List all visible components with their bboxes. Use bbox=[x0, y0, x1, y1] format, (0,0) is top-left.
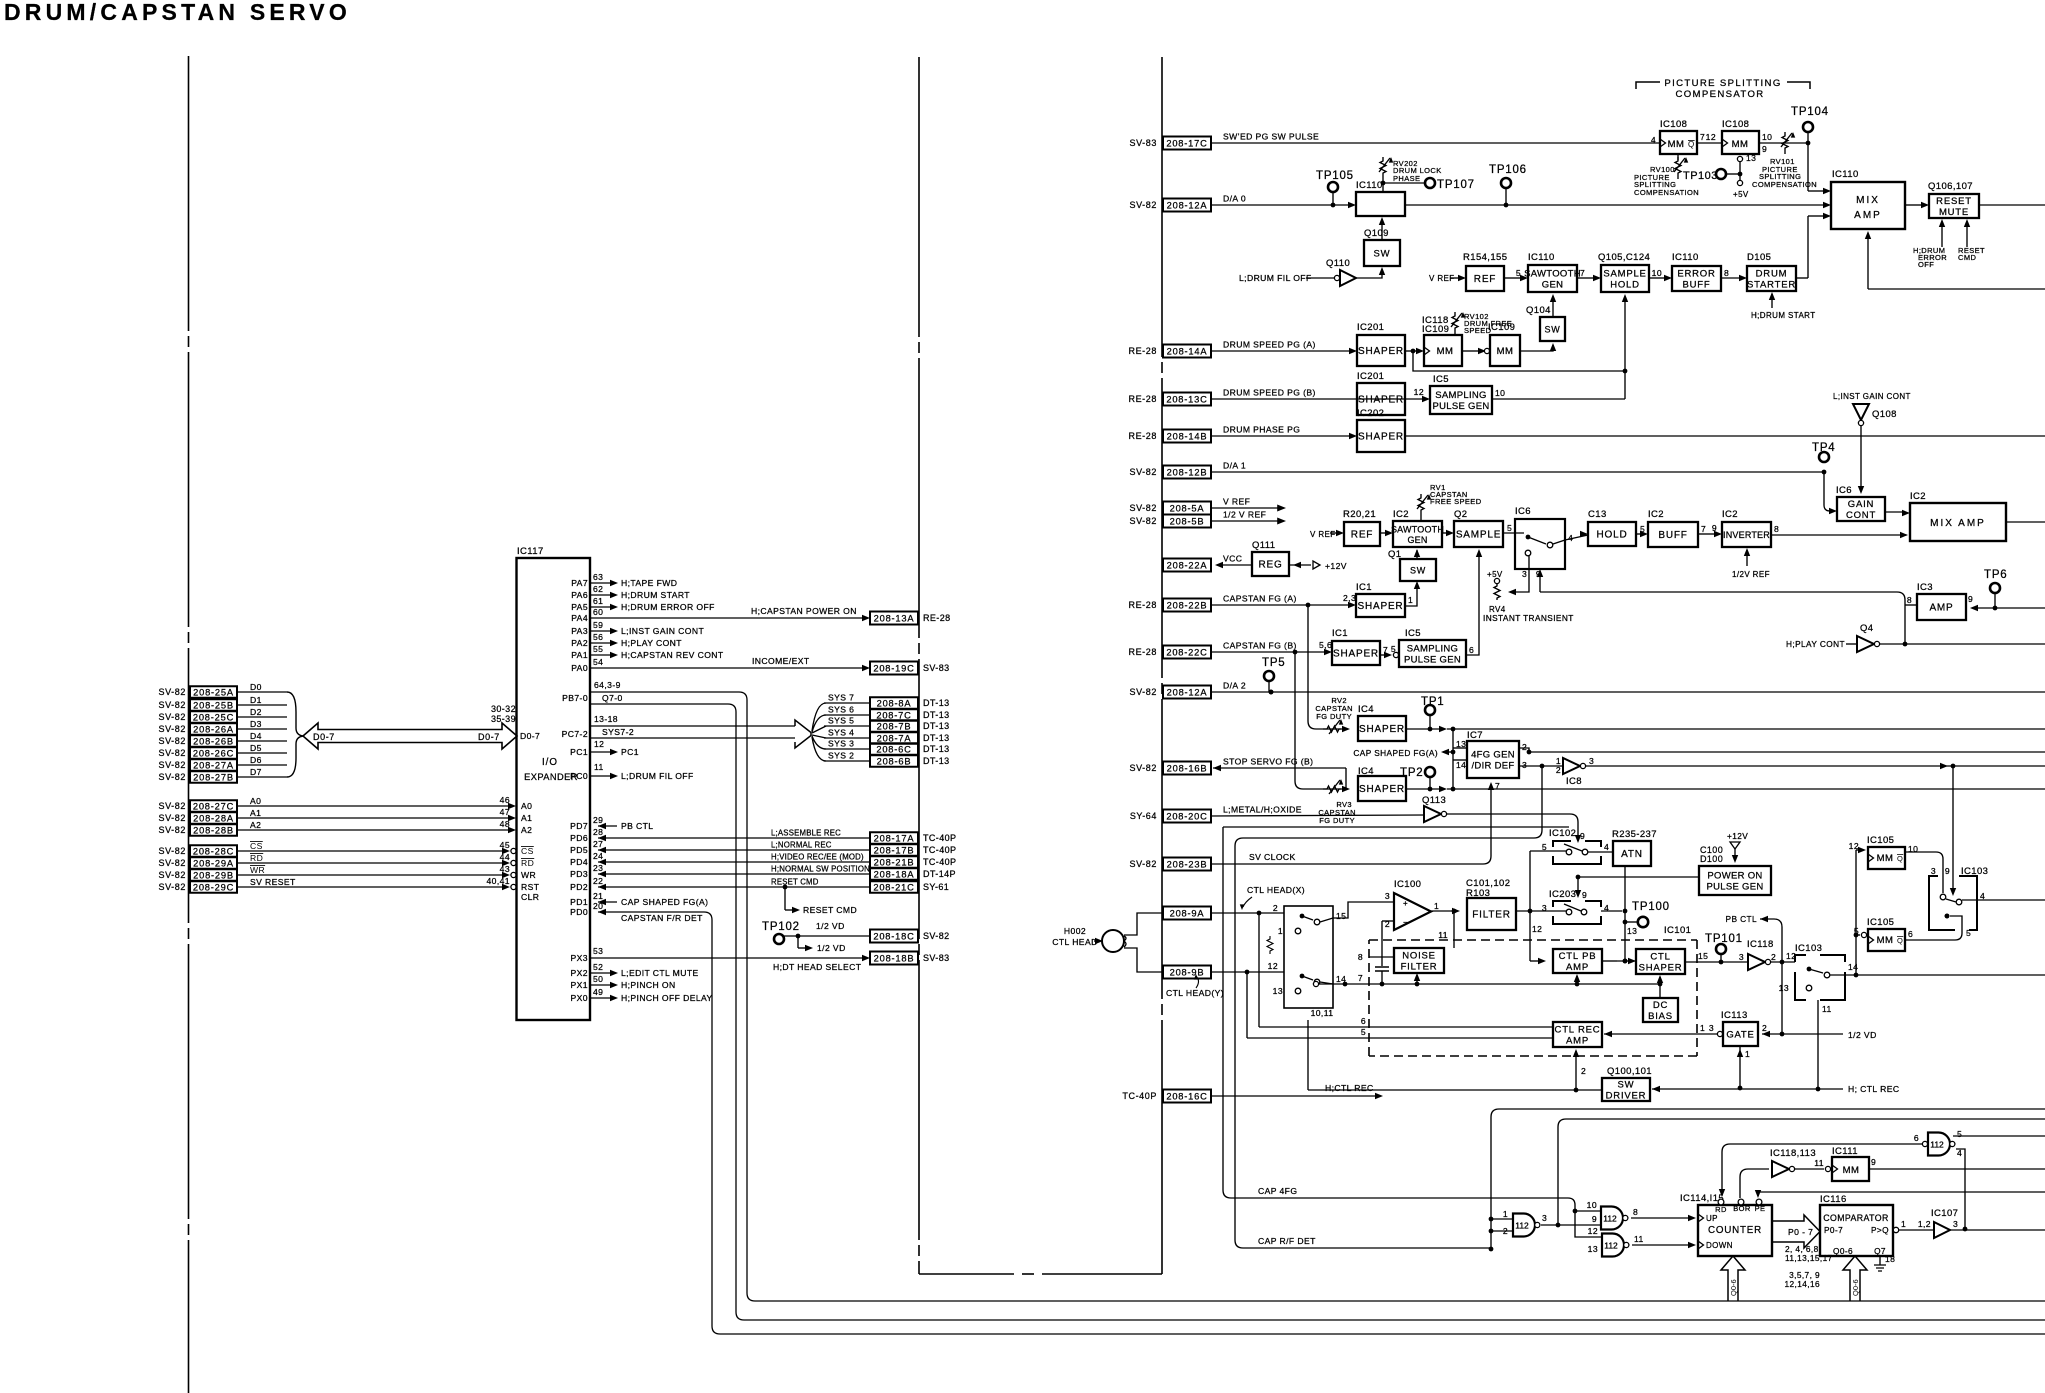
svg-text:IC118,113: IC118,113 bbox=[1770, 1148, 1816, 1159]
svg-text:SV-82: SV-82 bbox=[158, 846, 186, 856]
svg-text:H;DRUM ERROR OFF: H;DRUM ERROR OFF bbox=[621, 602, 715, 612]
svg-text:SV-82: SV-82 bbox=[923, 931, 950, 941]
svg-text:10: 10 bbox=[1652, 268, 1662, 278]
svg-text:208-23B: 208-23B bbox=[1167, 859, 1208, 869]
svg-text:12: 12 bbox=[1706, 132, 1716, 142]
svg-text:9: 9 bbox=[1580, 831, 1585, 841]
svg-text:RD: RD bbox=[521, 858, 534, 868]
svg-text:TP5: TP5 bbox=[1262, 657, 1286, 669]
svg-text:D/A 2: D/A 2 bbox=[1223, 681, 1246, 691]
svg-text:Q: Q bbox=[1897, 936, 1903, 945]
svg-text:SAMPLING: SAMPLING bbox=[1435, 390, 1487, 401]
svg-text:IC108: IC108 bbox=[1660, 119, 1687, 130]
svg-text:INVERTER: INVERTER bbox=[1723, 530, 1770, 540]
svg-text:SYS 3: SYS 3 bbox=[828, 739, 854, 749]
svg-text:BOR: BOR bbox=[1733, 1204, 1751, 1213]
svg-text:SYS 2: SYS 2 bbox=[828, 751, 854, 761]
svg-text:RE-28: RE-28 bbox=[1128, 600, 1157, 610]
svg-text:SYS 5: SYS 5 bbox=[828, 716, 854, 726]
svg-text:208-14A: 208-14A bbox=[1167, 346, 1208, 356]
svg-text:SV-82: SV-82 bbox=[1129, 687, 1157, 697]
svg-text:13: 13 bbox=[1779, 983, 1789, 993]
svg-text:CTL HEAD(X): CTL HEAD(X) bbox=[1247, 885, 1305, 895]
svg-text:208-25A: 208-25A bbox=[193, 687, 234, 697]
svg-text:24: 24 bbox=[593, 851, 603, 861]
svg-text:Q111: Q111 bbox=[1252, 540, 1275, 551]
svg-text:112: 112 bbox=[1930, 1140, 1944, 1150]
svg-text:4FG GEN: 4FG GEN bbox=[1471, 750, 1515, 761]
svg-text:H;VIDEO REC/EE (MOD): H;VIDEO REC/EE (MOD) bbox=[771, 853, 864, 862]
svg-text:1: 1 bbox=[1408, 595, 1413, 605]
svg-text:D0: D0 bbox=[250, 682, 262, 692]
svg-text:FILTER: FILTER bbox=[1472, 910, 1511, 921]
svg-text:SHAPER: SHAPER bbox=[1333, 649, 1379, 660]
svg-text:A2: A2 bbox=[250, 820, 261, 830]
svg-text:P>Q: P>Q bbox=[1871, 1225, 1889, 1235]
svg-text:208-7A: 208-7A bbox=[877, 733, 912, 743]
svg-text:IC2: IC2 bbox=[1910, 491, 1926, 502]
svg-text:RST: RST bbox=[521, 882, 540, 892]
svg-text:D7: D7 bbox=[250, 767, 262, 777]
svg-text:RESET CMD: RESET CMD bbox=[771, 878, 819, 887]
svg-text:POWER ON: POWER ON bbox=[1707, 871, 1762, 882]
svg-text:DT-13: DT-13 bbox=[923, 756, 950, 766]
svg-text:Q: Q bbox=[1688, 140, 1695, 149]
svg-text:Q104: Q104 bbox=[1526, 305, 1551, 316]
svg-text:27: 27 bbox=[593, 839, 603, 849]
svg-text:1: 1 bbox=[1503, 1209, 1508, 1219]
svg-text:D1: D1 bbox=[250, 695, 262, 705]
svg-text:15: 15 bbox=[1336, 911, 1346, 921]
svg-text:AMP: AMP bbox=[1566, 962, 1589, 973]
svg-text:INSTANT TRANSIENT: INSTANT TRANSIENT bbox=[1483, 613, 1574, 623]
svg-text:MIX: MIX bbox=[1856, 195, 1880, 206]
svg-text:23: 23 bbox=[593, 863, 603, 873]
svg-text:TC-40P: TC-40P bbox=[1122, 1091, 1157, 1101]
svg-text:RE-28: RE-28 bbox=[1128, 346, 1157, 356]
svg-text:3: 3 bbox=[1931, 866, 1936, 876]
svg-text:TP106: TP106 bbox=[1489, 164, 1527, 176]
svg-text:IC110: IC110 bbox=[1356, 180, 1383, 191]
svg-text:IC203: IC203 bbox=[1549, 889, 1576, 900]
svg-text:5: 5 bbox=[1957, 1129, 1962, 1139]
svg-text:54: 54 bbox=[593, 657, 603, 667]
svg-text:SW: SW bbox=[1618, 1080, 1635, 1091]
svg-text:5: 5 bbox=[1854, 926, 1859, 936]
svg-text:208-22C: 208-22C bbox=[1166, 647, 1207, 657]
svg-text:3: 3 bbox=[1709, 1023, 1714, 1033]
svg-text:GAIN: GAIN bbox=[1848, 499, 1874, 510]
svg-text:CONT: CONT bbox=[1846, 510, 1876, 521]
svg-text:208-20C: 208-20C bbox=[1166, 811, 1207, 821]
svg-text:MM: MM bbox=[1877, 935, 1894, 946]
svg-text:CTL HEAD(Y): CTL HEAD(Y) bbox=[1166, 988, 1224, 998]
svg-text:208-22B: 208-22B bbox=[1167, 600, 1208, 610]
svg-text:SV-82: SV-82 bbox=[158, 882, 186, 892]
svg-text:8: 8 bbox=[1907, 595, 1912, 605]
svg-text:SYS7-2: SYS7-2 bbox=[602, 727, 634, 737]
svg-text:SV-82: SV-82 bbox=[158, 687, 186, 697]
svg-text:L;DRUM FIL OFF: L;DRUM FIL OFF bbox=[621, 771, 694, 781]
svg-text:22: 22 bbox=[593, 876, 603, 886]
svg-text:208-21B: 208-21B bbox=[874, 857, 915, 867]
svg-text:208-18A: 208-18A bbox=[874, 869, 915, 879]
svg-text:DC: DC bbox=[1653, 1000, 1668, 1011]
svg-text:TP2: TP2 bbox=[1400, 767, 1424, 779]
svg-text:PE: PE bbox=[1755, 1204, 1766, 1213]
svg-text:SW’ED PG SW PULSE: SW’ED PG SW PULSE bbox=[1223, 132, 1319, 142]
svg-text:Q0-6: Q0-6 bbox=[1729, 1279, 1738, 1296]
svg-text:CAP SHAPED FG(A): CAP SHAPED FG(A) bbox=[1353, 748, 1438, 758]
svg-text:Q108: Q108 bbox=[1872, 409, 1897, 420]
svg-text:PX3: PX3 bbox=[571, 953, 588, 963]
svg-text:CS: CS bbox=[521, 846, 534, 856]
svg-text:IC105: IC105 bbox=[1867, 917, 1894, 928]
svg-text:DOWN: DOWN bbox=[1706, 1241, 1733, 1250]
svg-text:IC6: IC6 bbox=[1836, 485, 1852, 496]
svg-text:RD: RD bbox=[1715, 1205, 1727, 1214]
svg-text:53: 53 bbox=[593, 946, 603, 956]
svg-text:SHAPER: SHAPER bbox=[1358, 395, 1404, 406]
svg-text:CAP R/F DET: CAP R/F DET bbox=[1258, 1236, 1316, 1246]
svg-text:2: 2 bbox=[1771, 952, 1776, 962]
svg-text:7: 7 bbox=[1700, 132, 1705, 142]
svg-text:H;PINCH ON: H;PINCH ON bbox=[621, 980, 676, 990]
svg-text:3: 3 bbox=[1522, 760, 1527, 770]
svg-text:9: 9 bbox=[1592, 1214, 1597, 1224]
svg-text:IC108: IC108 bbox=[1722, 119, 1749, 130]
svg-text:PD6: PD6 bbox=[570, 833, 588, 843]
svg-text:L;INST GAIN CONT: L;INST GAIN CONT bbox=[621, 626, 704, 636]
svg-text:SHAPER: SHAPER bbox=[1358, 601, 1404, 612]
svg-text:IC110: IC110 bbox=[1528, 252, 1555, 263]
svg-text:BUFF: BUFF bbox=[1658, 530, 1687, 541]
svg-text:62: 62 bbox=[593, 584, 603, 594]
svg-text:D6: D6 bbox=[250, 755, 262, 765]
svg-text:208-5B: 208-5B bbox=[1170, 516, 1205, 526]
svg-text:208-9A: 208-9A bbox=[1170, 908, 1205, 918]
svg-text:A0: A0 bbox=[521, 801, 532, 811]
svg-text:TC-40P: TC-40P bbox=[923, 845, 956, 855]
svg-text:SHAPER: SHAPER bbox=[1359, 784, 1405, 795]
svg-text:28: 28 bbox=[593, 827, 603, 837]
svg-text:8: 8 bbox=[1358, 952, 1363, 962]
svg-text:PHASE: PHASE bbox=[1393, 174, 1420, 183]
svg-text:IC4: IC4 bbox=[1358, 704, 1374, 715]
svg-text:IC102: IC102 bbox=[1549, 828, 1576, 839]
svg-text:IC7: IC7 bbox=[1467, 730, 1483, 741]
svg-text:SV-82: SV-82 bbox=[158, 748, 186, 758]
svg-text:PB CTL: PB CTL bbox=[1726, 914, 1757, 924]
svg-text:IC5: IC5 bbox=[1433, 374, 1449, 385]
svg-text:1: 1 bbox=[1745, 1049, 1750, 1059]
svg-text:AMP: AMP bbox=[1566, 1036, 1589, 1047]
svg-text:H;DRUM START: H;DRUM START bbox=[1751, 311, 1816, 320]
svg-text:VCC: VCC bbox=[1223, 554, 1242, 564]
svg-text:5: 5 bbox=[1516, 268, 1521, 278]
svg-text:I/O: I/O bbox=[542, 757, 558, 768]
svg-text:CTL REC: CTL REC bbox=[1555, 1025, 1601, 1036]
svg-text:49: 49 bbox=[593, 987, 603, 997]
svg-text:GEN: GEN bbox=[1542, 280, 1564, 291]
svg-text:SV-82: SV-82 bbox=[158, 736, 186, 746]
svg-text:SV-82: SV-82 bbox=[158, 724, 186, 734]
svg-text:IC2: IC2 bbox=[1393, 509, 1409, 520]
svg-text:R235-237: R235-237 bbox=[1612, 829, 1657, 840]
svg-text:WR: WR bbox=[521, 870, 536, 880]
svg-text:21: 21 bbox=[593, 891, 603, 901]
svg-text:7: 7 bbox=[1358, 973, 1363, 983]
svg-text:5: 5 bbox=[1361, 1027, 1366, 1037]
svg-text:D0-7: D0-7 bbox=[478, 732, 500, 742]
svg-text:64,3-9: 64,3-9 bbox=[594, 680, 621, 690]
svg-text:H;CAPSTAN POWER ON: H;CAPSTAN POWER ON bbox=[751, 606, 857, 616]
svg-text:IC117: IC117 bbox=[517, 546, 544, 557]
svg-text:ERROR: ERROR bbox=[1677, 269, 1715, 280]
svg-text:REG: REG bbox=[1258, 560, 1282, 571]
svg-text:H;CAPSTAN REV CONT: H;CAPSTAN REV CONT bbox=[621, 650, 724, 660]
svg-text:PA4: PA4 bbox=[571, 613, 588, 623]
svg-text:3: 3 bbox=[1589, 756, 1594, 766]
svg-text:NOISE: NOISE bbox=[1402, 951, 1436, 962]
svg-text:13: 13 bbox=[1627, 926, 1637, 936]
svg-text:45: 45 bbox=[500, 840, 510, 850]
svg-text:MUTE: MUTE bbox=[1939, 207, 1969, 218]
svg-text:HOLD: HOLD bbox=[1610, 280, 1640, 291]
svg-text:SYS 7: SYS 7 bbox=[828, 693, 854, 703]
svg-text:REF: REF bbox=[1474, 274, 1496, 285]
svg-text:CLR: CLR bbox=[521, 892, 539, 902]
svg-text:29: 29 bbox=[593, 815, 603, 825]
svg-text:BUFF: BUFF bbox=[1682, 280, 1710, 291]
svg-text:COMPENSATION: COMPENSATION bbox=[1634, 188, 1699, 197]
svg-text:D4: D4 bbox=[250, 731, 262, 741]
svg-text:IC107: IC107 bbox=[1931, 1208, 1958, 1219]
svg-text:60: 60 bbox=[593, 607, 603, 617]
svg-text:61: 61 bbox=[593, 596, 603, 606]
svg-text:MM: MM bbox=[1437, 346, 1454, 357]
svg-text:DT-14P: DT-14P bbox=[923, 869, 956, 879]
svg-text:RE-28: RE-28 bbox=[923, 613, 951, 623]
svg-text:DT-13: DT-13 bbox=[923, 698, 950, 708]
svg-text:D/A 1: D/A 1 bbox=[1223, 461, 1246, 471]
svg-text:SAMPLE: SAMPLE bbox=[1456, 530, 1501, 541]
svg-text:2: 2 bbox=[1581, 1066, 1586, 1076]
svg-text:DRUM SPEED PG (B): DRUM SPEED PG (B) bbox=[1223, 388, 1316, 398]
svg-text:PC0: PC0 bbox=[570, 771, 588, 781]
svg-text:PA2: PA2 bbox=[571, 638, 588, 648]
svg-text:208-17B: 208-17B bbox=[874, 845, 915, 855]
svg-text:46: 46 bbox=[500, 795, 510, 805]
svg-text:SHAPER: SHAPER bbox=[1359, 724, 1405, 735]
svg-text:1: 1 bbox=[1278, 926, 1283, 936]
svg-text:15: 15 bbox=[1698, 951, 1708, 961]
svg-text:R154,155: R154,155 bbox=[1463, 252, 1507, 263]
svg-text:208-29B: 208-29B bbox=[193, 870, 234, 880]
svg-text:RE-28: RE-28 bbox=[1128, 647, 1157, 657]
svg-text:D2: D2 bbox=[250, 707, 262, 717]
svg-text:H;PLAY CONT: H;PLAY CONT bbox=[621, 638, 682, 648]
svg-text:C13: C13 bbox=[1588, 509, 1607, 520]
svg-text:IC118: IC118 bbox=[1747, 939, 1774, 950]
svg-text:8: 8 bbox=[1724, 268, 1729, 278]
svg-text:AMP: AMP bbox=[1929, 603, 1953, 614]
svg-text:13: 13 bbox=[1746, 153, 1756, 163]
svg-text:PA0: PA0 bbox=[571, 663, 588, 673]
svg-text:V REF: V REF bbox=[1223, 497, 1250, 507]
svg-text:SAMPLING: SAMPLING bbox=[1407, 644, 1459, 655]
svg-text:PA7: PA7 bbox=[571, 578, 588, 588]
svg-text:SV-82: SV-82 bbox=[158, 825, 186, 835]
svg-text:208-13C: 208-13C bbox=[1166, 394, 1207, 404]
svg-text:D3: D3 bbox=[250, 719, 262, 729]
svg-text:RESET CMD: RESET CMD bbox=[803, 905, 857, 915]
svg-text:11: 11 bbox=[1822, 1004, 1832, 1014]
svg-text:12: 12 bbox=[594, 739, 604, 749]
svg-text:4: 4 bbox=[1604, 842, 1609, 852]
svg-text:Q113: Q113 bbox=[1422, 795, 1446, 806]
svg-text:IC110: IC110 bbox=[1672, 252, 1699, 263]
svg-text:FILTER: FILTER bbox=[1401, 962, 1438, 973]
svg-text:6: 6 bbox=[1361, 1016, 1366, 1026]
svg-text:208-12A: 208-12A bbox=[1167, 200, 1208, 210]
svg-text:208-6C: 208-6C bbox=[876, 744, 911, 754]
svg-text:RE-28: RE-28 bbox=[1128, 431, 1157, 441]
svg-text:D100: D100 bbox=[1700, 854, 1723, 864]
svg-text:IC6: IC6 bbox=[1515, 506, 1531, 517]
svg-text:FG DUTY: FG DUTY bbox=[1319, 816, 1355, 825]
svg-text:L;ASSEMBLE REC: L;ASSEMBLE REC bbox=[771, 829, 841, 838]
svg-text:112: 112 bbox=[1603, 1214, 1617, 1224]
svg-text:PX0: PX0 bbox=[571, 993, 588, 1003]
svg-text:SV CLOCK: SV CLOCK bbox=[1249, 852, 1296, 862]
svg-text:UP: UP bbox=[1706, 1214, 1718, 1223]
svg-text:SV-82: SV-82 bbox=[158, 772, 186, 782]
svg-text:INCOME/EXT: INCOME/EXT bbox=[752, 656, 810, 666]
svg-text:BIAS: BIAS bbox=[1648, 1011, 1673, 1022]
svg-text:GEN: GEN bbox=[1407, 535, 1427, 545]
svg-text:TP101: TP101 bbox=[1705, 933, 1743, 945]
svg-text:SAWTOOTH: SAWTOOTH bbox=[1524, 269, 1581, 280]
svg-text:PD7: PD7 bbox=[570, 821, 588, 831]
svg-text:44: 44 bbox=[500, 852, 510, 862]
svg-text:208-25B: 208-25B bbox=[193, 700, 234, 710]
svg-text:208-9B: 208-9B bbox=[1170, 967, 1205, 977]
svg-text:A1: A1 bbox=[250, 808, 261, 818]
svg-text:208-8A: 208-8A bbox=[877, 698, 912, 708]
svg-text:TC-40P: TC-40P bbox=[923, 857, 956, 867]
svg-text:40,41: 40,41 bbox=[486, 876, 510, 886]
svg-text:2: 2 bbox=[1503, 1226, 1508, 1236]
svg-text:1: 1 bbox=[1700, 1023, 1705, 1033]
svg-text:D105: D105 bbox=[1747, 252, 1771, 263]
svg-text:V REF: V REF bbox=[1310, 530, 1336, 539]
svg-text:208-7C: 208-7C bbox=[876, 710, 911, 720]
svg-text:208-21C: 208-21C bbox=[873, 882, 914, 892]
svg-text:+: + bbox=[1403, 899, 1408, 908]
svg-text:2: 2 bbox=[1522, 742, 1527, 752]
svg-text:14: 14 bbox=[1456, 760, 1466, 770]
svg-text:1/2 VD: 1/2 VD bbox=[1848, 1030, 1877, 1040]
svg-text:SAMPLE: SAMPLE bbox=[1603, 269, 1646, 280]
svg-text:35-39: 35-39 bbox=[491, 714, 516, 724]
svg-text:SV-82: SV-82 bbox=[158, 712, 186, 722]
svg-text:MM: MM bbox=[1877, 853, 1894, 864]
svg-text:8: 8 bbox=[1774, 524, 1779, 534]
svg-text:TP100: TP100 bbox=[1632, 901, 1670, 913]
svg-text:208-12A: 208-12A bbox=[1167, 687, 1208, 697]
svg-text:AMP: AMP bbox=[1854, 210, 1882, 221]
svg-text:208-5A: 208-5A bbox=[1170, 503, 1205, 513]
svg-text:HOLD: HOLD bbox=[1597, 530, 1628, 541]
svg-text:DT-13: DT-13 bbox=[923, 744, 950, 754]
svg-text:PD4: PD4 bbox=[570, 857, 588, 867]
svg-text:REF: REF bbox=[1351, 530, 1373, 541]
svg-text:SV-82: SV-82 bbox=[158, 700, 186, 710]
svg-text:10: 10 bbox=[1495, 388, 1505, 398]
svg-text:14: 14 bbox=[1848, 962, 1858, 972]
svg-text:PB CTL: PB CTL bbox=[621, 821, 654, 831]
svg-text:D0-7: D0-7 bbox=[313, 732, 335, 742]
svg-text:H;CTL REC: H;CTL REC bbox=[1325, 1083, 1374, 1093]
svg-text:MM: MM bbox=[1732, 139, 1749, 150]
svg-text:PULSE GEN: PULSE GEN bbox=[1706, 882, 1763, 893]
svg-text:Q109: Q109 bbox=[1364, 228, 1389, 239]
svg-text:208-28A: 208-28A bbox=[193, 813, 234, 823]
svg-text:PA1: PA1 bbox=[571, 650, 588, 660]
svg-text:Q105,C124: Q105,C124 bbox=[1598, 252, 1650, 263]
svg-text:IC3: IC3 bbox=[1917, 582, 1933, 593]
svg-text:208-27B: 208-27B bbox=[193, 772, 234, 782]
svg-text:SHAPER: SHAPER bbox=[1358, 432, 1404, 443]
svg-text:IC5: IC5 bbox=[1405, 628, 1421, 639]
svg-text:Q: Q bbox=[1897, 854, 1903, 863]
svg-text:12: 12 bbox=[1414, 387, 1424, 397]
svg-text:R20,21: R20,21 bbox=[1343, 509, 1376, 520]
svg-text:47: 47 bbox=[500, 807, 510, 817]
svg-text:7: 7 bbox=[1580, 268, 1585, 278]
svg-text:2: 2 bbox=[1556, 765, 1561, 775]
svg-text:13: 13 bbox=[1456, 739, 1466, 749]
svg-text:6: 6 bbox=[1469, 645, 1474, 655]
svg-text:SV-83: SV-83 bbox=[923, 953, 950, 963]
svg-text:12: 12 bbox=[1268, 961, 1278, 971]
svg-text:IC2: IC2 bbox=[1722, 509, 1738, 520]
svg-text:43: 43 bbox=[500, 864, 510, 874]
svg-text:PC1: PC1 bbox=[621, 747, 639, 757]
svg-text:CAPSTAN FG (A): CAPSTAN FG (A) bbox=[1223, 594, 1297, 604]
svg-text:208-13A: 208-13A bbox=[874, 613, 915, 623]
svg-text:IC116: IC116 bbox=[1820, 1194, 1847, 1205]
svg-text:IC8: IC8 bbox=[1566, 776, 1582, 787]
svg-text:TP103: TP103 bbox=[1683, 170, 1718, 182]
svg-text:6: 6 bbox=[1914, 1133, 1919, 1143]
svg-text:Q100,101: Q100,101 bbox=[1607, 1066, 1652, 1077]
svg-text:RESET: RESET bbox=[1936, 196, 1972, 207]
svg-text:IC1: IC1 bbox=[1332, 628, 1348, 639]
svg-text:PA3: PA3 bbox=[571, 626, 588, 636]
svg-text:9: 9 bbox=[1582, 890, 1587, 900]
svg-text:/DIR DEF: /DIR DEF bbox=[1471, 761, 1514, 772]
svg-text:3: 3 bbox=[1739, 952, 1744, 962]
svg-text:3: 3 bbox=[1542, 1213, 1547, 1223]
svg-text:Q0-6: Q0-6 bbox=[1833, 1246, 1853, 1256]
svg-text:IC103: IC103 bbox=[1795, 943, 1822, 954]
svg-text:56: 56 bbox=[593, 632, 603, 642]
svg-text:+12V: +12V bbox=[1325, 561, 1347, 571]
svg-text:9: 9 bbox=[1968, 594, 1973, 604]
svg-text:208-17A: 208-17A bbox=[874, 833, 915, 843]
